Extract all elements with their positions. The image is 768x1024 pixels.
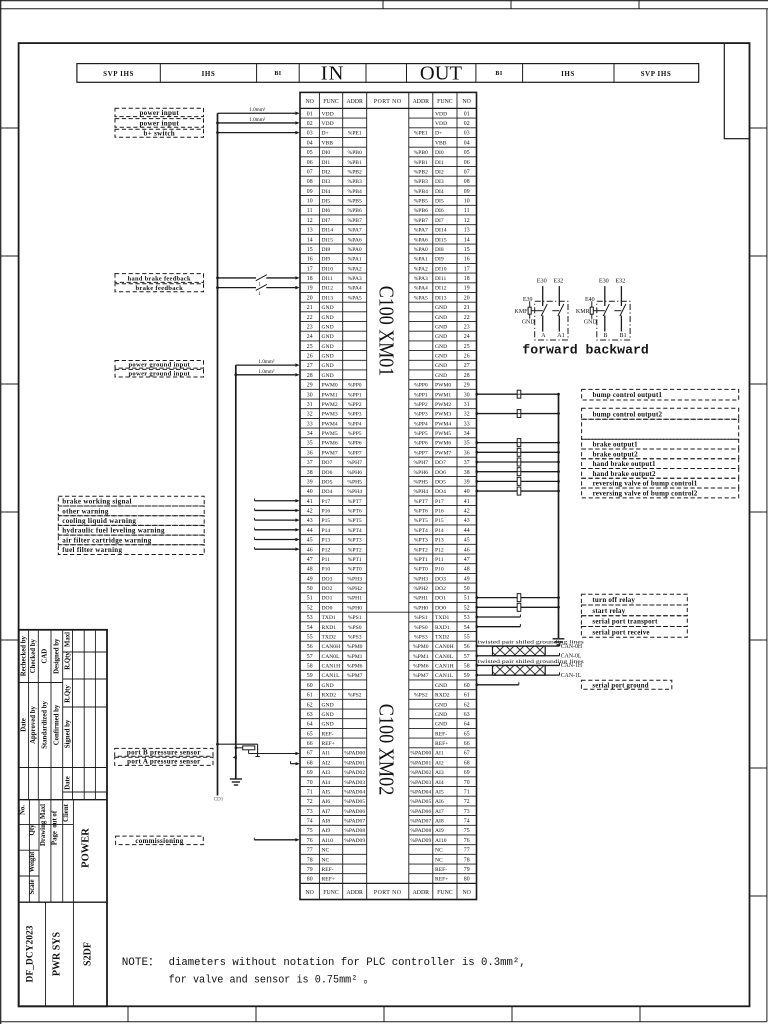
- svg-text:start relay: start relay: [592, 607, 625, 615]
- svg-text:NC: NC: [435, 857, 443, 863]
- svg-text:03: 03: [464, 131, 470, 137]
- sheet outer border right: [766, 9, 768, 1022]
- svg-text:33: 33: [307, 421, 313, 427]
- svg-text:26: 26: [307, 354, 313, 360]
- svg-text:C100 XM01: C100 XM01: [375, 286, 399, 377]
- svg-text:%PP3: %PP3: [414, 412, 428, 418]
- svg-text:16: 16: [464, 257, 470, 263]
- contact blade 1: [541, 304, 547, 316]
- svg-text:%PA6: %PA6: [348, 237, 362, 243]
- title block v-line mid: [38, 800, 40, 903]
- svg-text:serial port receive: serial port receive: [592, 628, 649, 636]
- svg-text:No.: No.: [20, 805, 27, 815]
- svg-text:CAN1L: CAN1L: [435, 673, 454, 679]
- wire pin 19 right segment: [266, 287, 296, 289]
- svg-text:64: 64: [464, 722, 470, 728]
- svg-text:%PS1: %PS1: [348, 615, 362, 621]
- svg-text:35: 35: [464, 441, 470, 447]
- svg-text:NC: NC: [435, 848, 443, 854]
- svg-text:DI15: DI15: [322, 237, 334, 243]
- junction on bus at pin 02 wire: [216, 122, 219, 125]
- svg-text:%PAD00: %PAD00: [344, 751, 365, 757]
- svg-text:AI2: AI2: [435, 760, 444, 766]
- zone tick bottom: [511, 1006, 513, 1021]
- svg-text:DI2: DI2: [435, 169, 444, 175]
- svg-text:52: 52: [464, 605, 470, 611]
- stub wire pin 68: [291, 763, 297, 765]
- svg-text:Date: Date: [64, 776, 71, 790]
- svg-text:%PS3: %PS3: [414, 634, 428, 640]
- zone tick top: [638, 0, 640, 9]
- connector symbol on pin 37 wire: [517, 458, 521, 466]
- svg-text:76: 76: [307, 838, 313, 844]
- svg-text:PWM5: PWM5: [322, 431, 338, 437]
- label: hydraulic fuel leveling warning (pin 44): [58, 525, 204, 535]
- label: bump control output1 (pin 30): [582, 389, 739, 400]
- bus B+ vertical (left bus 1): [217, 113, 219, 795]
- stub: [529, 301, 531, 307]
- svg-text:26: 26: [464, 354, 470, 360]
- svg-text:%PT5: %PT5: [348, 518, 362, 524]
- junction bus2 sensor: [235, 746, 238, 749]
- svg-text:SVP IHS: SVP IHS: [103, 70, 134, 78]
- svg-text:%PB2: %PB2: [348, 169, 363, 175]
- sheet outer border bottom: [1, 1021, 767, 1023]
- svg-text:air filter cartridge warning: air filter cartridge warning: [62, 536, 151, 544]
- svg-text:20: 20: [464, 295, 470, 301]
- svg-text:31: 31: [464, 402, 470, 408]
- label: port B pressure sensor (pin 67): [115, 748, 213, 756]
- CAN wire pin 57 (CAN-0L): [477, 655, 560, 657]
- svg-text:D+: D+: [322, 131, 329, 137]
- svg-text:DI12: DI12: [322, 286, 334, 292]
- svg-text:DO7: DO7: [435, 460, 446, 466]
- svg-text:77: 77: [464, 848, 470, 854]
- svg-text:24: 24: [307, 334, 313, 340]
- svg-text:Designed by: Designed by: [54, 638, 61, 674]
- svg-text:Standardized by: Standardized by: [42, 701, 49, 749]
- svg-text:P14: P14: [435, 528, 444, 534]
- svg-text:PWM3: PWM3: [435, 412, 451, 418]
- contact blade 1: [603, 304, 609, 316]
- svg-text:48: 48: [307, 567, 313, 573]
- svg-text:%PAD05: %PAD05: [410, 799, 431, 805]
- svg-text:Date: Date: [21, 718, 28, 732]
- svg-text:DO3: DO3: [435, 576, 446, 582]
- svg-text:TXD1: TXD1: [322, 615, 336, 621]
- svg-text:CD1: CD1: [214, 797, 224, 803]
- svg-text:34: 34: [307, 431, 313, 437]
- svg-text:IN: IN: [321, 63, 345, 85]
- svg-text:RXD1: RXD1: [435, 625, 450, 631]
- svg-text:%PT1: %PT1: [348, 557, 362, 563]
- svg-text:%PAD05: %PAD05: [344, 799, 365, 805]
- svg-text:DO3: DO3: [322, 576, 333, 582]
- svg-text:75: 75: [464, 828, 470, 834]
- svg-text:C100 XM02: C100 XM02: [375, 704, 399, 796]
- svg-text:Scale: Scale: [29, 879, 36, 894]
- svg-text:hydraulic fuel leveling warnin: hydraulic fuel leveling warning: [62, 527, 165, 535]
- output wire pin 37: [477, 461, 559, 463]
- open wire end tick: [254, 518, 256, 520]
- svg-text:DO7: DO7: [322, 460, 333, 466]
- CAN wire pin 59 (CAN-1L): [477, 674, 560, 676]
- title block h-line mid: [19, 875, 39, 877]
- svg-text:78: 78: [307, 857, 313, 863]
- svg-text:%PP1: %PP1: [348, 392, 362, 398]
- svg-text:IHS: IHS: [561, 70, 575, 78]
- label: reversing valve of bump control1 (pin 39): [582, 478, 739, 488]
- svg-text:41: 41: [464, 499, 470, 505]
- title block h-line mid: [19, 823, 74, 825]
- svg-text:56: 56: [307, 644, 313, 650]
- svg-text:%PT0: %PT0: [348, 567, 362, 573]
- svg-text:RXD2: RXD2: [435, 693, 450, 699]
- svg-text:06: 06: [307, 160, 313, 166]
- svg-text:%PAD02: %PAD02: [410, 770, 431, 776]
- svg-text:forward backward: forward backward: [522, 343, 649, 358]
- svg-text:12: 12: [464, 218, 470, 224]
- svg-text:PWM1: PWM1: [435, 392, 451, 398]
- coil wire: [593, 310, 605, 312]
- contactor dash-dot frame: [597, 301, 630, 340]
- svg-text:68: 68: [307, 760, 313, 766]
- svg-text:%PA1: %PA1: [348, 257, 362, 263]
- svg-text:power ground input: power ground input: [128, 362, 190, 369]
- svg-text:Checked by: Checked by: [30, 639, 37, 674]
- svg-text:61: 61: [307, 693, 313, 699]
- connector symbol on pin 40 wire: [517, 487, 521, 495]
- svg-text:PWM4: PWM4: [322, 421, 338, 427]
- svg-text:42: 42: [307, 509, 313, 515]
- svg-text:GND: GND: [322, 722, 334, 728]
- svg-text:%PA4: %PA4: [414, 286, 428, 292]
- title block h-line: [19, 799, 107, 801]
- svg-text:D+: D+: [435, 131, 442, 137]
- svg-text:%PA1: %PA1: [414, 257, 428, 263]
- svg-text:%PP2: %PP2: [414, 402, 428, 408]
- svg-text:DI0: DI0: [322, 150, 331, 156]
- svg-text:NO: NO: [306, 99, 314, 105]
- svg-text:%PA7: %PA7: [414, 228, 428, 234]
- svg-text:45: 45: [464, 538, 470, 544]
- zone tick right: [750, 511, 767, 513]
- svg-text:AI6: AI6: [435, 799, 444, 805]
- svg-text:32: 32: [464, 412, 470, 418]
- svg-text:%PAD07: %PAD07: [410, 819, 431, 825]
- svg-text:PWM6: PWM6: [435, 441, 451, 447]
- svg-text:GND: GND: [435, 334, 447, 340]
- svg-text:1.0mm²: 1.0mm²: [258, 359, 275, 365]
- svg-text:%PT6: %PT6: [348, 509, 362, 515]
- svg-text:ADDR: ADDR: [346, 890, 363, 896]
- svg-text:%PB5: %PB5: [348, 199, 363, 205]
- header bar divider: [298, 64, 300, 83]
- svg-text:%PM1: %PM1: [413, 654, 429, 660]
- svg-text:KMR: KMR: [576, 309, 590, 315]
- zone tick left: [1, 511, 19, 513]
- svg-text:%PA2: %PA2: [348, 266, 362, 272]
- svg-text:25: 25: [307, 344, 313, 350]
- svg-text:%PAD08: %PAD08: [344, 828, 365, 834]
- output wire pin 36: [477, 451, 559, 453]
- zone tick right: [750, 127, 767, 129]
- svg-text:%PE1: %PE1: [348, 131, 362, 137]
- svg-text:61: 61: [464, 693, 470, 699]
- title block v-line mid: [50, 800, 52, 903]
- contactor dash-dot frame: [535, 301, 568, 340]
- contact lead lower 2: [558, 316, 560, 332]
- svg-text:50: 50: [307, 586, 313, 592]
- svg-text:AI4: AI4: [322, 780, 331, 786]
- label: serial port ground (pin 60): [581, 680, 671, 689]
- contact blade 2: [558, 304, 564, 316]
- svg-text:OUT: OUT: [420, 63, 463, 85]
- svg-text:%PA2: %PA2: [414, 266, 428, 272]
- svg-text:B1: B1: [619, 332, 626, 339]
- svg-text:DI5: DI5: [322, 199, 331, 205]
- svg-text:PWM2: PWM2: [322, 402, 338, 408]
- svg-text:GND: GND: [435, 683, 447, 689]
- svg-text:DI1: DI1: [322, 160, 331, 166]
- svg-text:47: 47: [464, 557, 470, 563]
- label: air filter cartridge warning (pin 45): [58, 535, 204, 545]
- junction on bus at pin 03 wire: [216, 131, 219, 134]
- svg-text:38: 38: [307, 470, 313, 476]
- output bus vertical (right): [558, 394, 560, 638]
- svg-text:12: 12: [307, 218, 313, 224]
- contact lead lower 2: [620, 316, 622, 332]
- svg-text:%PS0: %PS0: [348, 625, 362, 631]
- svg-text:16: 16: [307, 257, 313, 263]
- svg-text:CAN-1L: CAN-1L: [561, 673, 582, 679]
- svg-text:1.0mm²: 1.0mm²: [258, 369, 275, 375]
- svg-text:%PAD01: %PAD01: [410, 760, 431, 766]
- connector symbol on pin 51 wire: [517, 594, 521, 602]
- svg-text:07: 07: [464, 169, 470, 175]
- svg-text:72: 72: [307, 799, 313, 805]
- svg-text:46: 46: [464, 547, 470, 553]
- label: brake feedback (pin 19): [115, 284, 204, 292]
- title block v-line: [83, 630, 85, 800]
- svg-text:38: 38: [464, 470, 470, 476]
- svg-text:02: 02: [464, 121, 470, 127]
- svg-text:64: 64: [307, 722, 313, 728]
- sheet outer border top line: [0, 8, 768, 10]
- svg-text:FUNC: FUNC: [437, 890, 453, 896]
- output wire pin 35: [477, 442, 559, 444]
- svg-text:P11: P11: [435, 557, 444, 563]
- svg-text:%PM0: %PM0: [347, 644, 363, 650]
- svg-text:DI15: DI15: [435, 237, 447, 243]
- svg-text:19: 19: [307, 286, 313, 292]
- title block v-line: [62, 630, 64, 800]
- label: fuel filter warning (pin 46): [58, 545, 204, 555]
- svg-text:CAN0L: CAN0L: [435, 654, 454, 660]
- svg-text:DO0: DO0: [435, 605, 446, 611]
- svg-text:%PB2: %PB2: [414, 169, 429, 175]
- svg-text:AI9: AI9: [435, 828, 444, 834]
- svg-text:AI8: AI8: [322, 819, 331, 825]
- svg-text:CAN0H: CAN0H: [322, 644, 341, 650]
- svg-text:58: 58: [464, 664, 470, 670]
- svg-text:1: 1: [258, 291, 261, 297]
- svg-text:DI11: DI11: [435, 276, 446, 282]
- svg-text:%PA7: %PA7: [348, 228, 362, 234]
- svg-text:18: 18: [464, 276, 470, 282]
- svg-text:turn off relay: turn off relay: [592, 596, 635, 604]
- svg-text:52: 52: [307, 605, 313, 611]
- svg-text:GND: GND: [322, 683, 334, 689]
- svg-text:brake output2: brake output2: [593, 450, 638, 458]
- svg-text:DI14: DI14: [435, 228, 447, 234]
- svg-text:PWM6: PWM6: [322, 441, 338, 447]
- svg-text:78: 78: [464, 857, 470, 863]
- svg-text:hand brake output1: hand brake output1: [593, 460, 656, 468]
- warning wire pin 45: [255, 538, 297, 540]
- svg-text:58: 58: [307, 664, 313, 670]
- svg-text:57: 57: [307, 654, 313, 660]
- svg-text:fuel filter warning: fuel filter warning: [62, 546, 122, 554]
- svg-text:TXD2: TXD2: [435, 634, 449, 640]
- svg-text:22: 22: [307, 315, 313, 321]
- svg-text:56: 56: [464, 644, 470, 650]
- contact lead lower 1: [604, 316, 606, 332]
- svg-text:REF+: REF+: [322, 877, 335, 883]
- sheet outer edge top: [0, 0, 768, 2]
- svg-text:bump control output2: bump control output2: [593, 410, 663, 418]
- svg-text:66: 66: [307, 741, 313, 747]
- svg-text:PWM2: PWM2: [435, 402, 451, 408]
- svg-text:P17: P17: [322, 499, 331, 505]
- svg-text:DI3: DI3: [435, 179, 444, 185]
- svg-text:GND: GND: [322, 354, 334, 360]
- sensor supply wire from bus1: [218, 743, 258, 745]
- svg-text:%PA5: %PA5: [348, 295, 362, 301]
- svg-text:%PA3: %PA3: [348, 276, 362, 282]
- zone tick top: [382, 0, 384, 9]
- svg-text:%PP1: %PP1: [414, 392, 428, 398]
- svg-text:20: 20: [307, 295, 313, 301]
- svg-text:23: 23: [307, 324, 313, 330]
- shield hatch box CAN1: [493, 665, 546, 675]
- svg-text:serial port transport: serial port transport: [592, 618, 658, 626]
- svg-text:Page out of: Page out of: [52, 810, 59, 845]
- svg-text:%PH5: %PH5: [347, 479, 362, 485]
- svg-text:%PH5: %PH5: [413, 479, 428, 485]
- title block v-line: [72, 630, 74, 800]
- svg-text:%PP4: %PP4: [348, 421, 362, 427]
- contact lead upper 2: [620, 286, 622, 306]
- svg-text:RXD1: RXD1: [322, 625, 337, 631]
- svg-text:TXD1: TXD1: [435, 615, 449, 621]
- contact lead upper 1: [604, 286, 606, 306]
- label: commissioning (pin 76): [116, 836, 204, 845]
- svg-text:BI: BI: [495, 71, 502, 77]
- svg-text:30: 30: [307, 392, 313, 398]
- contact lead lower 1: [542, 316, 544, 332]
- output wire pin 38: [477, 471, 559, 473]
- svg-text:39: 39: [307, 479, 313, 485]
- svg-text:%PAD08: %PAD08: [410, 828, 431, 834]
- svg-text:43: 43: [307, 518, 313, 524]
- svg-text:CAN1L: CAN1L: [322, 673, 341, 679]
- svg-text:31: 31: [307, 402, 313, 408]
- svg-text:62: 62: [464, 702, 470, 708]
- svg-text:46: 46: [307, 547, 313, 553]
- svg-text:AI7: AI7: [322, 809, 331, 815]
- svg-text:DO4: DO4: [435, 489, 446, 495]
- svg-text:GND: GND: [322, 712, 334, 718]
- title block h-line mid: [19, 849, 39, 851]
- svg-text:power ground input: power ground input: [128, 371, 190, 378]
- svg-text:Drawing Maxl: Drawing Maxl: [40, 804, 47, 846]
- label: power ground input (pin 27): [115, 361, 204, 369]
- header bar: [77, 64, 699, 83]
- label: power input (pin 02): [115, 119, 204, 128]
- svg-text:POWER: POWER: [81, 828, 92, 868]
- title block h-line: [19, 901, 107, 903]
- contact lead upper 1: [542, 286, 544, 306]
- svg-text:PORT NO: PORT NO: [374, 890, 402, 896]
- header bar divider: [256, 64, 258, 83]
- svg-text:DI8: DI8: [322, 247, 331, 253]
- svg-text:48: 48: [464, 567, 470, 573]
- svg-text:60: 60: [464, 683, 470, 689]
- wire sensor signal to pin 67: [249, 753, 297, 755]
- svg-text:AI2: AI2: [322, 760, 331, 766]
- output wire pin 32: [477, 413, 559, 415]
- zone tick right: [750, 383, 767, 385]
- svg-text:%PH0: %PH0: [347, 605, 362, 611]
- svg-text:DI6: DI6: [322, 208, 331, 214]
- svg-text:27: 27: [464, 363, 470, 369]
- svg-text:AI1: AI1: [435, 751, 444, 757]
- svg-text:41: 41: [307, 499, 313, 505]
- commissioning wire pin 76: [254, 839, 296, 841]
- coil terminal connector: [528, 307, 531, 314]
- sheet outer edge left: [0, 0, 2, 1024]
- svg-text:%PAD09: %PAD09: [410, 838, 431, 844]
- label: serial port receive (pin 54): [581, 626, 687, 637]
- svg-text:70: 70: [307, 780, 313, 786]
- svg-text:AI4: AI4: [435, 780, 444, 786]
- svg-text:CAD: CAD: [42, 649, 49, 664]
- svg-text:37: 37: [307, 460, 313, 466]
- title block v-line: [28, 630, 30, 800]
- svg-text:77: 77: [307, 848, 313, 854]
- svg-text:%PM1: %PM1: [347, 654, 363, 660]
- svg-text:E40: E40: [585, 297, 595, 303]
- svg-text:DO5: DO5: [322, 479, 333, 485]
- svg-text:CAN1H: CAN1H: [435, 664, 454, 670]
- svg-text:%PAD03: %PAD03: [344, 780, 365, 786]
- svg-text:19: 19: [464, 286, 470, 292]
- svg-text:%PM7: %PM7: [347, 673, 363, 679]
- label: b+ switch (pin 03): [115, 129, 204, 137]
- zone tick bottom: [255, 1006, 257, 1021]
- label box empty: [582, 419, 739, 439]
- svg-text:DI0: DI0: [435, 150, 444, 156]
- svg-text:06: 06: [464, 160, 470, 166]
- svg-text:P15: P15: [435, 518, 444, 524]
- title block v-line bottom: [45, 902, 47, 1006]
- svg-text:%PH6: %PH6: [347, 470, 362, 476]
- svg-text:R.Qty: R.Qty: [64, 685, 71, 703]
- svg-text:40: 40: [307, 489, 313, 495]
- svg-text:80: 80: [464, 877, 470, 883]
- svg-text:reversing valve of bump contro: reversing valve of bump control1: [593, 480, 698, 488]
